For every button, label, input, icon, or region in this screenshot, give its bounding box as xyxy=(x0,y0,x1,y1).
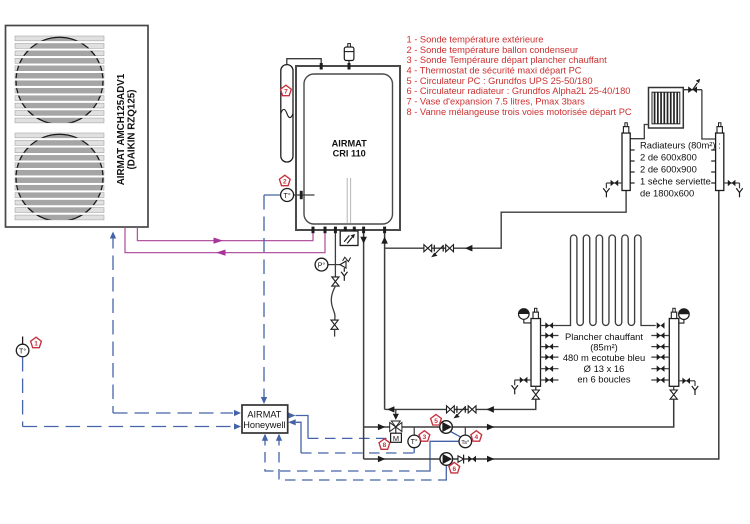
safety valve xyxy=(335,264,340,266)
svg-text:CRI 110: CRI 110 xyxy=(333,149,366,159)
svg-text:8: 8 xyxy=(383,442,387,449)
svg-text:480 m ecotube bleu: 480 m ecotube bleu xyxy=(563,352,645,363)
thermostat Ts 4 xyxy=(464,427,466,435)
branch into mixing valve xyxy=(395,409,397,416)
pump 6 circulateur radiateurs xyxy=(440,453,453,466)
expansion vessel 7 xyxy=(281,65,293,162)
isolation valve xyxy=(447,406,451,413)
left PC manifold bottom valve xyxy=(535,386,537,390)
svg-text:6 - Circulateur radiateur : Gr: 6 - Circulateur radiateur : Grundfos Alp… xyxy=(407,86,631,96)
refrigerant line (liquid) xyxy=(137,227,313,240)
radiator valve with handle xyxy=(683,89,702,91)
svg-text:3: 3 xyxy=(423,434,427,441)
radiator return pipe xyxy=(385,191,626,249)
sensor T2 ballon condenseur xyxy=(294,194,315,196)
refrigerant line (gas) xyxy=(125,227,325,252)
svg-text:AIRMAT: AIRMAT xyxy=(332,138,367,148)
svg-text:Plancher chauffant: Plancher chauffant xyxy=(565,331,643,342)
floor-heating supply pipe xyxy=(364,400,674,427)
thermometer xyxy=(524,319,531,323)
svg-text:7: 7 xyxy=(284,89,288,96)
right PC drain xyxy=(679,380,695,382)
left PC drain xyxy=(515,379,531,381)
supply riser from unit xyxy=(363,233,365,459)
svg-text:2: 2 xyxy=(283,179,287,186)
automatic air vent xyxy=(348,61,350,65)
sensor T1 outside temperature xyxy=(22,337,24,345)
heat exchanger coil xyxy=(346,178,348,223)
left manifold drain xyxy=(606,182,622,184)
tag 8 xyxy=(379,439,390,450)
svg-text:AIRMAT AMCH125ADV1: AIRMAT AMCH125ADV1 xyxy=(116,73,127,185)
svg-text:6: 6 xyxy=(452,466,456,473)
tag 5 xyxy=(431,415,442,426)
flow arrow xyxy=(486,406,494,413)
isolation valve xyxy=(424,245,428,252)
svg-text:(85m²): (85m²) xyxy=(590,342,618,353)
svg-text:T°: T° xyxy=(284,192,291,200)
left radiator manifold xyxy=(630,125,648,139)
svg-text:Ts°: Ts° xyxy=(461,440,469,446)
svg-text:de 1800x600: de 1800x600 xyxy=(640,187,694,198)
flexible hose xyxy=(331,286,335,320)
svg-text:5: 5 xyxy=(434,418,438,425)
svg-text:Honeywell: Honeywell xyxy=(243,420,285,430)
outdoor unit AIRMAT AMCH125ADV1 (DAIKIN RZQ125) xyxy=(6,26,149,228)
svg-text:1 - Sonde température extérieu: 1 - Sonde température extérieure xyxy=(407,34,544,44)
loop valves right manifold xyxy=(657,322,661,328)
svg-text:T°: T° xyxy=(19,347,26,355)
wire xyxy=(702,90,716,139)
sensor T3 depart PC xyxy=(413,427,415,435)
svg-text:5 - Circulateur PC : Grundfos: 5 - Circulateur PC : Grundfos UPS 25-50/… xyxy=(407,76,593,86)
fan grille 1 xyxy=(15,36,104,41)
wire: Honeywell to outdoor unit xyxy=(112,234,114,413)
tag 3 xyxy=(419,431,430,442)
svg-text:T°: T° xyxy=(411,438,418,446)
svg-text:2 de 600x800: 2 de 600x800 xyxy=(640,151,697,162)
svg-text:1 sèche serviette: 1 sèche serviette xyxy=(640,175,711,186)
controller AIRMAT Honeywell xyxy=(242,405,288,433)
svg-text:7 - Vase d'expansion 7.5 litre: 7 - Vase d'expansion 7.5 litres, Pmax 3b… xyxy=(407,97,586,107)
floor-heating return pipe xyxy=(385,400,536,410)
pump 5 circulateur PC xyxy=(440,421,453,434)
svg-text:P°: P° xyxy=(318,261,326,269)
drain valve lower xyxy=(331,320,338,325)
right PC manifold bottom valve xyxy=(673,386,675,390)
wire: T3 to Honeywell xyxy=(288,419,296,425)
return riser to unit xyxy=(384,233,386,409)
thermometer xyxy=(679,320,684,324)
fan grille 2 xyxy=(15,133,104,138)
wire: T2 to Honeywell xyxy=(264,194,281,196)
tag 1 xyxy=(31,337,42,348)
left PC manifold xyxy=(531,319,541,387)
svg-text:(DAIKIN RZQ125): (DAIKIN RZQ125) xyxy=(127,89,138,169)
wire: T1 to Honeywell xyxy=(22,357,24,427)
pipe stubs through unit bottom xyxy=(312,227,315,234)
indoor unit AIRMAT CRI 110 xyxy=(296,66,400,230)
isolation valve xyxy=(468,406,472,413)
flow arrow xyxy=(487,456,495,463)
drain cock xyxy=(433,245,435,252)
tag 4 xyxy=(471,431,482,442)
valve motor M xyxy=(391,433,402,442)
wire: pump 5 to Ts xyxy=(451,432,462,438)
tag 6 xyxy=(449,462,460,473)
pressure gauge P xyxy=(328,264,335,266)
wire: Honeywell to valve motor M xyxy=(288,412,296,418)
svg-text:AIRMAT: AIRMAT xyxy=(247,409,281,419)
drain valve upper xyxy=(332,277,339,282)
three-way mixing valve 8 xyxy=(390,423,396,432)
right manifold drain xyxy=(724,182,740,184)
svg-text:3 - Sonde Tempéraure départ pl: 3 - Sonde Tempéraure départ plancher cha… xyxy=(407,55,608,65)
svg-text:en 6 boucles: en 6 boucles xyxy=(577,373,630,384)
safety valve drain xyxy=(341,272,344,276)
svg-text:8 - Vanne mélangeuse trois voi: 8 - Vanne mélangeuse trois voies motoris… xyxy=(407,107,632,117)
isolation valve xyxy=(468,456,472,463)
svg-text:Radiateurs (80m²) :: Radiateurs (80m²) : xyxy=(640,139,721,150)
wire: Honeywell to pump 6 xyxy=(276,434,282,441)
expansion vessel pipe xyxy=(287,59,321,65)
flow arrow xyxy=(487,424,495,431)
isolation valve xyxy=(446,245,450,252)
tag 7 xyxy=(281,85,292,96)
right PC manifold xyxy=(669,319,679,387)
right radiator manifold xyxy=(716,133,724,191)
fill/drain line xyxy=(334,233,336,277)
loop valves left manifold xyxy=(541,325,555,327)
wire: Honeywell to Ts sensor xyxy=(262,434,268,441)
svg-text:4 - Thermostat de sécurité max: 4 - Thermostat de sécurité maxi départ P… xyxy=(407,65,582,75)
check valve xyxy=(458,456,464,463)
towel radiator xyxy=(649,88,684,129)
svg-text:4: 4 xyxy=(474,434,478,441)
svg-text:M: M xyxy=(393,434,399,443)
electrical connection box xyxy=(340,231,358,246)
drain cock xyxy=(456,406,458,413)
floor heating coil xyxy=(555,235,656,326)
radiator supply pipe xyxy=(364,191,719,460)
tag 2 xyxy=(279,175,290,186)
flow arrow xyxy=(465,245,473,252)
svg-text:Ø 13 x 16: Ø 13 x 16 xyxy=(584,363,625,374)
svg-text:2 de 600x900: 2 de 600x900 xyxy=(640,163,697,174)
svg-text:1: 1 xyxy=(34,341,38,348)
svg-text:2 - Sonde température ballon c: 2 - Sonde température ballon condenseur xyxy=(407,45,579,55)
